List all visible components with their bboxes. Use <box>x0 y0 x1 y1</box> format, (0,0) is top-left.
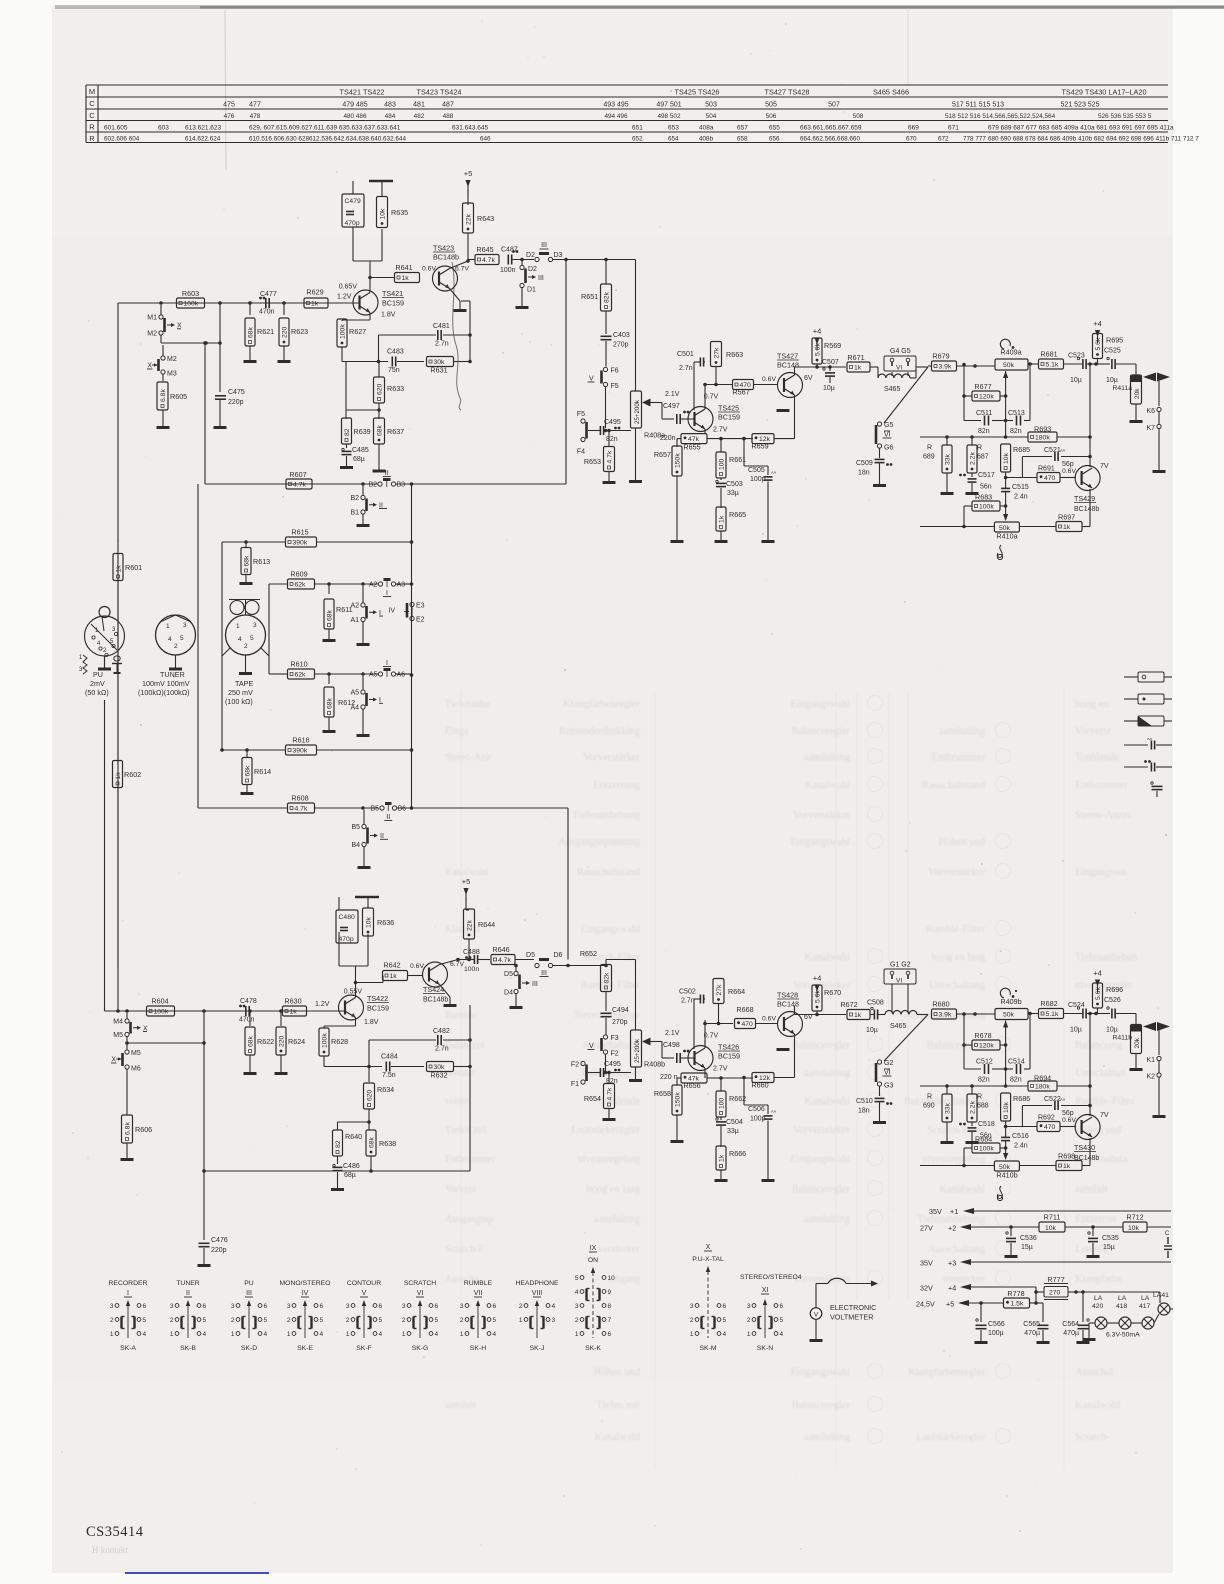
svg-text:C564: C564 <box>1062 1321 1079 1328</box>
svg-text:E3: E3 <box>416 603 425 610</box>
label TUNER <box>138 670 190 697</box>
svg-text:Eingangswahl: Eingangswahl <box>791 699 851 710</box>
svg-text:B2: B2 <box>368 482 377 489</box>
resistor R666 <box>715 1146 747 1181</box>
label 1.2V ch2 <box>315 1001 330 1008</box>
svg-text:5: 5 <box>250 635 254 642</box>
svg-text:TS423 TS424: TS423 TS424 <box>417 87 462 96</box>
svg-text:D5: D5 <box>526 952 535 959</box>
resistor R686 <box>1001 1093 1031 1133</box>
capacitor C487 <box>500 247 534 275</box>
transistor TS430 <box>1074 1112 1109 1162</box>
capacitor C517 <box>959 472 995 494</box>
svg-text:R678: R678 <box>974 1031 991 1040</box>
lamp chain feed <box>1075 1291 1077 1293</box>
wire collector rail <box>353 227 382 261</box>
svg-text:10µ: 10µ <box>1070 377 1082 384</box>
svg-text:R621: R621 <box>257 327 274 336</box>
svg-text:470p: 470p <box>339 936 354 943</box>
resistor R672 <box>840 1000 870 1020</box>
svg-text:Rauschabstand: Rauschabstand <box>922 780 986 791</box>
svg-text:68µ: 68µ <box>344 1172 356 1179</box>
svg-text:C565: C565 <box>1023 1321 1040 1328</box>
svg-text:BC148b: BC148b <box>1074 506 1099 513</box>
svg-text:689: 689 <box>923 454 935 461</box>
svg-text:Entzerrung: Entzerrung <box>593 780 640 791</box>
svg-text:2.7n: 2.7n <box>435 341 449 348</box>
svg-text:488: 488 <box>443 113 454 120</box>
switch SK-K <box>575 1245 615 1352</box>
svg-text:TS421: TS421 <box>382 289 403 298</box>
svg-text:2mV: 2mV <box>90 679 105 688</box>
resistor R697 <box>1056 513 1082 532</box>
svg-text:10k: 10k <box>1128 1225 1140 1232</box>
svg-text:C517: C517 <box>978 472 995 479</box>
svg-text:R: R <box>927 1094 932 1101</box>
label II contact B2-B3 <box>368 470 405 489</box>
svg-text:484: 484 <box>385 113 396 120</box>
svg-text:R646: R646 <box>492 945 509 954</box>
svg-text:120k: 120k <box>979 394 994 401</box>
svg-text:VII: VII <box>474 1290 483 1297</box>
svg-text:0.6V: 0.6V <box>1062 1117 1076 1124</box>
svg-text:7: 7 <box>608 1317 612 1324</box>
svg-text:R698: R698 <box>1058 1152 1075 1161</box>
coil input marker <box>79 655 87 674</box>
svg-text:R651: R651 <box>581 292 598 301</box>
svg-text:100k: 100k <box>979 1146 994 1153</box>
svg-text:4: 4 <box>575 1289 579 1296</box>
svg-text:C507: C507 <box>822 359 839 366</box>
svg-text:D2: D2 <box>526 252 535 259</box>
svg-text:R607: R607 <box>289 470 306 479</box>
resistor R569 <box>812 327 841 368</box>
svg-text:C566: C566 <box>988 1321 1005 1328</box>
resistor R645 <box>475 245 499 265</box>
resistor R616 <box>222 736 412 756</box>
svg-text:aansluiting: aansluiting <box>804 1068 851 1079</box>
svg-text:480 486: 480 486 <box>343 113 367 120</box>
wire D3 riser <box>565 260 567 485</box>
potentiometer R409b <box>995 988 1028 1019</box>
svg-text:SK-N: SK-N <box>757 1345 773 1352</box>
wire TS424 emitter <box>440 985 457 1006</box>
resistor R639 <box>342 362 371 445</box>
svg-text:2: 2 <box>170 1317 174 1324</box>
svg-text:C: C <box>89 111 95 120</box>
treble clef mark <box>997 545 1002 560</box>
wire TS426 collector <box>703 1020 707 1048</box>
contact A5-A6 h <box>369 660 405 679</box>
connector K6 <box>1146 407 1161 424</box>
svg-text:C501: C501 <box>677 351 694 358</box>
wire TS427 collector <box>795 365 847 375</box>
svg-text:602.606 604: 602.606 604 <box>104 136 140 143</box>
wire base rail ch1 ts427 <box>705 384 732 386</box>
svg-text:482: 482 <box>414 113 425 120</box>
svg-text:TS425 TS426: TS425 TS426 <box>675 87 720 96</box>
svg-text:R697: R697 <box>1058 513 1075 522</box>
svg-text:100k: 100k <box>321 1033 328 1048</box>
svg-text:5: 5 <box>435 1317 439 1324</box>
svg-text:2.1V: 2.1V <box>665 1030 680 1037</box>
resistor R632 <box>427 1062 472 1080</box>
label 1.2V <box>337 294 352 301</box>
svg-text:A5: A5 <box>369 672 378 679</box>
svg-text:10µ: 10µ <box>1070 1027 1082 1034</box>
svg-text:503: 503 <box>705 102 717 109</box>
riser D6 from bus <box>567 808 569 960</box>
svg-text:Rumble-Filter: Rumble-Filter <box>581 980 641 991</box>
svg-text:R614: R614 <box>254 767 271 776</box>
resistor R641 <box>395 263 437 283</box>
wire M2 branch <box>161 303 222 345</box>
svg-text:R624: R624 <box>288 1037 305 1046</box>
capacitor C564 <box>1062 1290 1089 1342</box>
svg-text:R696: R696 <box>1106 985 1123 994</box>
wire diagonal G2 <box>884 1015 928 1062</box>
svg-text:BC148b: BC148b <box>423 997 448 1004</box>
svg-text:475: 475 <box>223 102 235 109</box>
svg-text:Rauschabstand: Rauschabstand <box>577 867 641 878</box>
svg-text:Balanceregler: Balanceregler <box>792 726 851 737</box>
svg-text:100k: 100k <box>184 301 199 308</box>
svg-text:C: C <box>89 99 95 108</box>
resistor R688 <box>967 1086 989 1126</box>
svg-text:35V: 35V <box>920 1259 933 1268</box>
svg-text:R666: R666 <box>729 1149 746 1158</box>
svg-text:3: 3 <box>110 1303 114 1310</box>
svg-text:390k: 390k <box>293 540 308 547</box>
svg-text:0.7V: 0.7V <box>704 394 719 401</box>
svg-text:4: 4 <box>780 1331 784 1338</box>
svg-text:603: 603 <box>158 125 169 132</box>
svg-text:SK-F: SK-F <box>356 1345 371 1352</box>
svg-text:verste: verste <box>445 1096 469 1107</box>
svg-text:RECORDER: RECORDER <box>109 1280 148 1287</box>
capacitor C518 <box>959 1121 995 1143</box>
label lamp voltage <box>1106 1332 1140 1339</box>
svg-text:2: 2 <box>575 1317 579 1324</box>
resistor R633 <box>346 362 404 420</box>
svg-text:PU: PU <box>93 670 103 679</box>
resistor R609 <box>269 570 378 657</box>
svg-text:75n: 75n <box>388 367 400 374</box>
resistor R640 <box>333 1130 363 1156</box>
svg-text:aansluit: aansluit <box>445 1400 476 1411</box>
svg-text:521 523 525: 521 523 525 <box>1061 102 1100 109</box>
svg-text:10k: 10k <box>365 916 372 928</box>
svg-text:HEADPHONE: HEADPHONE <box>515 1280 559 1287</box>
svg-text:R: R <box>89 123 95 132</box>
svg-text:Tiefen mit: Tiefen mit <box>445 1125 487 1136</box>
svg-text:68k: 68k <box>376 424 383 436</box>
svg-text:68k: 68k <box>326 609 333 621</box>
wire R409b wiper <box>1003 1021 1008 1087</box>
svg-text:0.6V: 0.6V <box>762 376 776 383</box>
svg-text:1k: 1k <box>290 1009 298 1016</box>
svg-text:C482: C482 <box>433 1028 450 1035</box>
svg-text:ELECTRONIC: ELECTRONIC <box>830 1303 876 1312</box>
svg-text:TS427: TS427 <box>777 352 798 361</box>
wire TS421 emitter <box>342 313 370 322</box>
transistor TS427 <box>777 352 813 398</box>
DIN connector PU <box>85 616 125 668</box>
wire TS423 emitter <box>450 289 467 311</box>
svg-text:R606: R606 <box>135 1125 152 1134</box>
svg-text:27k: 27k <box>713 347 720 359</box>
svg-text:0.65V: 0.65V <box>339 284 358 291</box>
resistor R670 <box>812 974 841 1015</box>
wire collector node <box>468 260 475 262</box>
svg-text:Vorverstärker: Vorverstärker <box>928 867 985 878</box>
svg-text:TS426: TS426 <box>718 1043 739 1052</box>
svg-text:10µ: 10µ <box>823 385 835 392</box>
svg-text:56p: 56p <box>1062 1110 1074 1117</box>
svg-text:646: 646 <box>480 136 491 143</box>
svg-text:PU: PU <box>244 1280 254 1287</box>
resistor R608 <box>198 484 378 813</box>
wire TS429 collector <box>1089 364 1091 467</box>
svg-text:C518: C518 <box>978 1121 995 1128</box>
svg-text:B3: B3 <box>397 482 406 489</box>
svg-text:4: 4 <box>320 1331 324 1338</box>
svg-text:Kanalwahl: Kanalwahl <box>940 1184 986 1195</box>
svg-text:3: 3 <box>183 622 187 629</box>
svg-text:22k: 22k <box>466 919 473 931</box>
svg-text:1k: 1k <box>1063 1163 1071 1170</box>
svg-text:Balanceregler: Balanceregler <box>792 1040 851 1051</box>
svg-text:610.516.606.630 628612.536.6: 610.516.606.630 628612.536.642.634.638.6… <box>249 136 406 143</box>
svg-text:1k: 1k <box>854 365 862 372</box>
svg-text:X: X <box>147 363 152 370</box>
svg-text:TS425: TS425 <box>718 404 739 413</box>
svg-text:C502: C502 <box>679 989 696 996</box>
svg-text:V: V <box>814 1312 819 1319</box>
svg-text:270p: 270p <box>613 342 629 349</box>
svg-text:Rumble-Filter: Rumble-Filter <box>926 924 986 935</box>
svg-text:100n: 100n <box>464 966 479 973</box>
svg-text:R627: R627 <box>349 327 366 336</box>
svg-text:TS422: TS422 <box>367 994 388 1003</box>
svg-text:Rumble: Rumble <box>445 1010 477 1021</box>
svg-text:10k: 10k <box>1045 1225 1057 1232</box>
svg-text:Ausgangssp: Ausgangssp <box>445 1214 493 1225</box>
svg-text:LA: LA <box>1141 1295 1150 1302</box>
svg-text:C480: C480 <box>339 914 355 921</box>
svg-text:483: 483 <box>384 102 396 109</box>
capacitor C485 <box>340 444 369 468</box>
resistor R687 <box>967 437 989 477</box>
svg-text:R623: R623 <box>291 327 308 336</box>
svg-text:3.9k: 3.9k <box>939 1012 952 1019</box>
svg-text:180k: 180k <box>1035 1084 1050 1091</box>
svg-text:(100 kΩ): (100 kΩ) <box>225 697 253 706</box>
svg-text:VI: VI <box>417 1290 424 1297</box>
svg-text:Balanceregler: Balanceregler <box>927 1040 986 1051</box>
svg-text:hoog en: hoog en <box>1075 699 1109 710</box>
svg-text:4: 4 <box>238 636 242 643</box>
svg-text:Tiefen mit: Tiefen mit <box>596 1400 640 1411</box>
svg-text:SK-G: SK-G <box>412 1345 429 1352</box>
capacitor C524 <box>1068 1002 1098 1034</box>
svg-text:C516: C516 <box>1012 1133 1029 1140</box>
svg-text:5: 5 <box>203 1317 207 1324</box>
wire TS427 emitter <box>777 395 795 439</box>
svg-text:SK-D: SK-D <box>241 1345 257 1352</box>
svg-text:Kanalwahl: Kanalwahl <box>595 1432 641 1443</box>
svg-text:G4 G5: G4 G5 <box>890 348 911 355</box>
switch G4-G5 <box>884 348 916 376</box>
DIN connector TUNER <box>156 615 196 669</box>
svg-text:Umschaltun: Umschaltun <box>1075 1068 1126 1079</box>
potentiometer R411b <box>1112 1014 1142 1070</box>
transistor TS422 <box>339 989 390 1027</box>
svg-text:^^: ^^ <box>771 1111 777 1117</box>
svg-text:470n: 470n <box>259 309 275 316</box>
lamp LA420 <box>1083 1295 1108 1340</box>
svg-text:VIII: VIII <box>532 1290 543 1297</box>
svg-text:476: 476 <box>224 113 235 120</box>
svg-text:5.6k: 5.6k <box>1095 337 1102 350</box>
svg-text:5.6k: 5.6k <box>814 343 821 356</box>
svg-text:M: M <box>89 87 95 96</box>
switch SK-F CONTOUR <box>346 1280 383 1352</box>
svg-text:D6: D6 <box>554 952 563 959</box>
svg-text:R628: R628 <box>331 1037 348 1046</box>
svg-text:C505: C505 <box>748 467 765 474</box>
svg-text:R672: R672 <box>840 1000 857 1009</box>
svg-text:408a: 408a <box>699 125 714 132</box>
svg-text:III: III <box>541 970 547 977</box>
capacitor C475 <box>214 343 245 428</box>
wire bus b6 <box>397 806 569 810</box>
svg-text:417: 417 <box>1139 1303 1151 1310</box>
wire tape left pin <box>220 542 230 752</box>
transistor TS423 <box>433 244 470 292</box>
svg-text:R671: R671 <box>847 353 864 362</box>
svg-text:1: 1 <box>287 1331 291 1338</box>
svg-text:4.7k: 4.7k <box>295 806 308 813</box>
svg-text:68k: 68k <box>368 1136 375 1148</box>
resistor R684 <box>962 1135 1007 1168</box>
svg-text:R691: R691 <box>1038 466 1055 473</box>
correction scribble <box>452 262 461 410</box>
svg-text:100p: 100p <box>750 476 766 483</box>
wire TS430 emitter <box>1082 1138 1090 1166</box>
svg-text:IV: IV <box>302 1290 309 1297</box>
capacitor C503 <box>716 480 743 508</box>
svg-text:R679: R679 <box>932 352 949 361</box>
svg-text:1k: 1k <box>402 275 410 282</box>
svg-text:K7: K7 <box>1146 425 1155 432</box>
capacitor C477 <box>259 291 277 316</box>
svg-text:4.7k: 4.7k <box>482 257 495 264</box>
svg-text:R632: R632 <box>430 1071 447 1080</box>
capacitor C521 <box>1022 447 1091 478</box>
svg-text:niveauregeling: niveauregeling <box>923 1154 986 1165</box>
capacitor C507 <box>822 359 839 392</box>
capacitor C478 <box>239 998 257 1024</box>
resistor R679 <box>928 352 995 372</box>
wire TS430 collector <box>1089 1014 1091 1117</box>
svg-text:II: II <box>186 1290 190 1297</box>
svg-text:F6: F6 <box>611 368 619 375</box>
right edge cut component <box>1164 1231 1172 1258</box>
svg-text:E2: E2 <box>416 617 425 624</box>
resistor R671 <box>847 353 870 372</box>
svg-text:Tiefenanhe: Tiefenanhe <box>445 699 490 710</box>
svg-text:505: 505 <box>765 102 777 109</box>
svg-text:VOLTMETER: VOLTMETER <box>830 1313 873 1322</box>
resistor R652 <box>580 949 612 992</box>
svg-text:50k: 50k <box>1003 362 1015 369</box>
wire TS422 emitter <box>324 1018 356 1029</box>
svg-text:270: 270 <box>1049 1290 1061 1297</box>
svg-text:1: 1 <box>170 1331 174 1338</box>
pu ground <box>98 668 111 671</box>
riser ch2 feedback <box>469 1005 471 1171</box>
resistor R614 <box>241 750 272 794</box>
svg-text:aansluiting: aansluiting <box>594 1214 641 1225</box>
svg-text:R411b: R411b <box>1112 1035 1132 1042</box>
svg-text:270p: 270p <box>612 1019 628 1026</box>
svg-text:1k: 1k <box>718 515 725 523</box>
svg-text:R670: R670 <box>824 988 841 997</box>
svg-text:1: 1 <box>110 1331 114 1338</box>
wire to ts423 emitter <box>461 301 470 335</box>
resistor R567 <box>732 376 778 397</box>
svg-text:R659: R659 <box>751 442 768 451</box>
svg-text:2: 2 <box>174 643 178 650</box>
capacitor C494 <box>601 992 629 1035</box>
svg-text:R603: R603 <box>182 289 199 298</box>
svg-text:498 502: 498 502 <box>657 113 681 120</box>
svg-text:(50 kΩ): (50 kΩ) <box>85 688 109 697</box>
svg-text:68k: 68k <box>244 765 251 777</box>
svg-text:F2: F2 <box>571 1062 579 1069</box>
svg-text:220p: 220p <box>211 1247 227 1254</box>
svg-text:M6: M6 <box>131 1066 141 1073</box>
label TAPE <box>225 679 253 706</box>
svg-text:504: 504 <box>706 113 717 120</box>
capacitor C511 <box>964 410 1006 435</box>
svg-text:778 777: 778 777 <box>963 136 986 143</box>
svg-text:F5: F5 <box>611 383 619 390</box>
svg-text:2.4n: 2.4n <box>1014 494 1028 501</box>
svg-text:656: 656 <box>769 136 780 143</box>
contact G5-G6 <box>876 422 893 458</box>
svg-text:2.7V: 2.7V <box>713 1066 728 1073</box>
svg-text:A4: A4 <box>350 705 359 712</box>
svg-text:Vorvers: Vorvers <box>445 1184 476 1195</box>
svg-text:VI: VI <box>884 432 891 439</box>
svg-text:TAPE: TAPE <box>235 679 253 688</box>
resistor R623 <box>248 301 308 361</box>
svg-text:1: 1 <box>519 1317 523 1324</box>
svg-text:hoog en laag: hoog en laag <box>586 1184 640 1195</box>
svg-text:Umschaltung: Umschaltung <box>929 980 986 991</box>
wire node to pot ch2 <box>606 960 636 1031</box>
contact F5-F4 <box>577 411 596 456</box>
svg-text:4: 4 <box>493 1331 497 1338</box>
wire R409a out <box>962 362 1038 366</box>
svg-text:82k: 82k <box>603 291 610 303</box>
svg-text:2.7V: 2.7V <box>713 427 728 434</box>
svg-text:VI: VI <box>884 1070 891 1077</box>
svg-text:2: 2 <box>460 1317 464 1324</box>
svg-text:4: 4 <box>143 1331 147 1338</box>
